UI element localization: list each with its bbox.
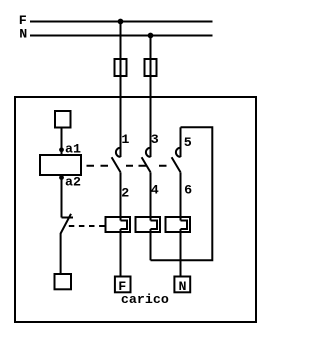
wire N bus	[30, 35, 213, 37]
svg-text:1: 1	[121, 133, 129, 148]
node junction on N bus	[148, 33, 154, 39]
fuse F2	[145, 59, 157, 76]
terminal block (control supply)	[55, 111, 71, 128]
terminal block (control return)	[55, 274, 72, 289]
contact bridge 2	[136, 217, 161, 232]
fuse F1	[115, 59, 127, 76]
contact 3 blade	[142, 157, 151, 172]
svg-text:4: 4	[151, 184, 159, 199]
wire bridge 1 to F terminal	[120, 229, 122, 277]
contact 5 fixed hook	[176, 148, 181, 157]
contact bridge 1	[106, 217, 131, 232]
node a2	[59, 175, 64, 180]
wire control to coil	[61, 128, 63, 156]
svg-text:carico: carico	[121, 293, 169, 308]
svg-text:N: N	[179, 280, 187, 295]
svg-text:5: 5	[184, 136, 192, 151]
dashed mechanical link control contact to bridge	[69, 225, 106, 227]
control contact seat	[62, 217, 74, 219]
dashed mechanical link coil to contacts	[87, 165, 167, 167]
wire bridge 3 to N terminal	[180, 229, 182, 277]
terminal block F (load phase)	[115, 277, 131, 293]
bridge notch 1	[121, 221, 128, 230]
wire neutral drop through fuse to contact 3	[150, 36, 152, 158]
contact 1 blade	[112, 157, 121, 172]
contact 5 blade	[172, 157, 181, 172]
wire coil to control contact	[61, 175, 63, 218]
coil K1	[40, 155, 81, 175]
wire contact 1 lower	[120, 172, 122, 220]
enclosure box (contactor)	[15, 97, 256, 322]
wire phase drop through fuse to contact 1	[120, 22, 122, 158]
wire F bus	[30, 21, 213, 23]
bridge notch 2	[151, 221, 158, 230]
svg-text:N: N	[19, 28, 27, 43]
svg-text:F: F	[19, 14, 27, 29]
contact 3 fixed hook	[146, 148, 151, 157]
control contact blade (NC pushbutton)	[61, 214, 71, 234]
contact 1 fixed hook	[116, 148, 121, 157]
wire contact 5 lower	[180, 172, 182, 220]
node a1	[59, 147, 64, 152]
svg-text:2: 2	[121, 187, 129, 202]
svg-text:3: 3	[151, 133, 159, 148]
wire bridge 2 to aux loop	[150, 229, 152, 260]
wire aux loop	[151, 127, 213, 260]
node junction on F bus	[118, 19, 124, 25]
terminal block N (load neutral)	[174, 277, 190, 293]
contact bridge 3	[166, 217, 191, 232]
svg-text:a2: a2	[65, 176, 81, 191]
wire control contact to terminal	[60, 233, 62, 274]
svg-text:6: 6	[184, 184, 192, 199]
wire contact 3 lower	[150, 172, 152, 220]
bridge notch 3	[181, 221, 188, 230]
wire aux loop to contact 5	[180, 127, 182, 157]
